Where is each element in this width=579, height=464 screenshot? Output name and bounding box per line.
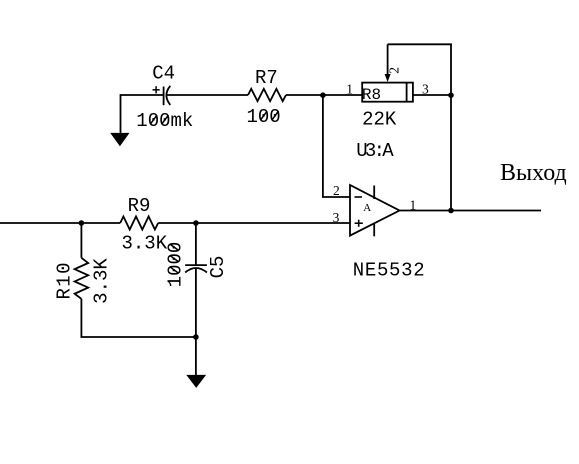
potentiometer R8 body	[362, 83, 413, 102]
svg-text:NE5532: NE5532	[353, 259, 425, 281]
svg-text:2: 2	[386, 67, 401, 74]
wire: node B down to output node	[450, 95, 452, 211]
label C5 (rotated)	[207, 256, 229, 279]
resistor R9	[120, 217, 158, 230]
C4 polarity plus sign	[153, 86, 160, 93]
op-amp inverting input minus sign	[355, 196, 363, 198]
wire: ground corner up and right to C4 positive plate	[121, 95, 164, 133]
wire: R9 to node D	[158, 222, 196, 224]
svg-text:C5: C5	[207, 256, 229, 279]
svg-text:22K: 22K	[362, 108, 397, 130]
ground (bottom, below C5)	[186, 375, 206, 388]
capacitor C4 (polarized, horizontal)	[164, 86, 171, 105]
op-amp non-inverting input plus sign	[355, 220, 363, 227]
resistor R7	[248, 89, 286, 101]
svg-text:R8: R8	[362, 86, 381, 104]
op-amp U1 triangle	[350, 185, 400, 236]
value 100mk (C4)	[136, 110, 193, 132]
op-amp power pin tick (bottom)	[373, 223, 375, 237]
R8 wiper arrow and wire: wiper looped to pin 3	[385, 44, 451, 95]
wire: node D down to C5	[195, 223, 197, 265]
svg-text:R10: R10	[53, 263, 75, 300]
ground (left, below C4)	[110, 133, 129, 146]
node D junction (R9 / C5 / op-amp pin 3)	[193, 220, 199, 226]
wire: C5 down to ground	[195, 268, 197, 375]
wire: input line from left edge to R9	[0, 222, 120, 224]
wire: op-amp output to the right	[400, 210, 542, 212]
svg-text:Выход: Выход	[500, 160, 567, 186]
wire: node A down and right to op-amp pin 2	[323, 95, 350, 197]
node F output junction (pin 1 / feedback)	[448, 208, 454, 214]
capacitor C5 (polarized, vertical)	[185, 265, 207, 272]
value 100 (R7)	[247, 106, 281, 128]
R8 pin number 2 (rotated)	[386, 67, 401, 74]
wire: R10 bottom to node E	[81, 299, 195, 337]
value 3.3K (R10, rotated)	[91, 258, 113, 304]
op-amp power pin tick (top)	[373, 186, 375, 200]
value 1000 (C5, rotated)	[165, 242, 187, 288]
svg-text:C4: C4	[152, 63, 175, 85]
svg-text:R7: R7	[255, 67, 278, 89]
svg-text:A: A	[363, 202, 371, 214]
wire: C4 to R7	[167, 94, 248, 96]
node C junction (input / R9 / R10)	[79, 220, 85, 226]
resistor R10 (vertical)	[75, 258, 89, 299]
wire: R8 pin 3 to node B	[413, 94, 451, 96]
svg-text:2: 2	[333, 183, 340, 198]
node A junction (R7 / R8.1 / op-amp inverting input)	[320, 92, 326, 98]
node B junction (R8.3 / wiper / output)	[448, 92, 454, 98]
wire: R7 to R8 pin 1	[286, 94, 362, 96]
svg-text:1: 1	[346, 82, 353, 97]
wire: node C down to R10	[80, 223, 82, 258]
label R10 (rotated)	[53, 263, 75, 300]
svg-text:3.3K: 3.3K	[91, 258, 113, 304]
svg-text:3.3K: 3.3K	[122, 232, 168, 254]
svg-text:R9: R9	[128, 195, 151, 217]
wire: node D to op-amp pin 3	[196, 222, 350, 224]
node E junction (R10 / C5 / ground)	[193, 334, 199, 340]
svg-text:U3:A: U3:A	[356, 140, 394, 162]
